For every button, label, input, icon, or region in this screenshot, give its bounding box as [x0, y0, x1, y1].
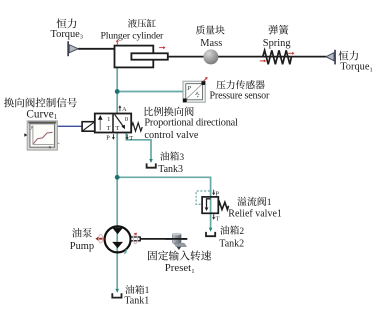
- svg-text:P: P: [186, 86, 191, 92]
- svg-text:Torque3: Torque3: [51, 29, 83, 41]
- svg-text:Relief valve1: Relief valve1: [228, 209, 282, 220]
- svg-text:Spring: Spring: [263, 38, 291, 49]
- svg-text:Torque1: Torque1: [340, 62, 372, 74]
- svg-text:Tank3: Tank3: [158, 164, 183, 175]
- svg-text:control valve: control valve: [144, 130, 198, 141]
- svg-text:Tank2: Tank2: [219, 238, 244, 249]
- svg-text:1: 1: [107, 116, 110, 123]
- svg-text:Proportional directional: Proportional directional: [144, 118, 238, 129]
- svg-text:T: T: [107, 125, 111, 132]
- svg-text:1: 1: [267, 197, 272, 208]
- svg-text:Tank1: Tank1: [124, 296, 149, 307]
- svg-text:P: P: [106, 134, 110, 141]
- svg-text:P: P: [215, 191, 219, 198]
- svg-text:Plunger cylinder: Plunger cylinder: [101, 31, 165, 42]
- svg-text:T: T: [129, 135, 133, 142]
- svg-text:2: 2: [239, 227, 244, 237]
- svg-text:Preset1: Preset1: [165, 262, 195, 275]
- svg-text:A: A: [122, 106, 127, 113]
- svg-text:T: T: [115, 125, 119, 132]
- svg-text:Pressure sensor: Pressure sensor: [210, 91, 271, 102]
- svg-text:Pump: Pump: [70, 241, 94, 252]
- svg-text:Mass: Mass: [200, 38, 222, 49]
- svg-text:3: 3: [179, 153, 184, 163]
- svg-text:Curve1: Curve1: [26, 108, 57, 121]
- svg-text:T: T: [216, 215, 220, 222]
